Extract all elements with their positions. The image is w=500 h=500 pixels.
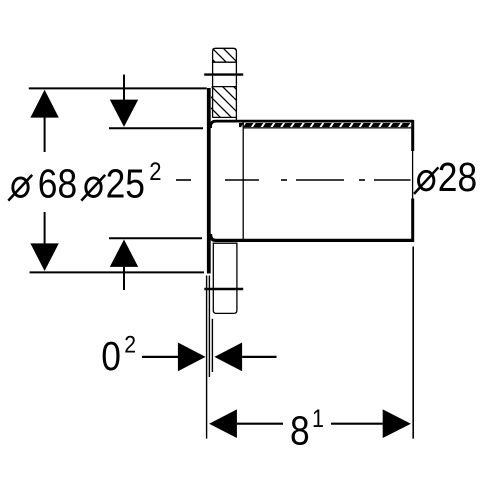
flange plate upper hatch — [136, 33, 300, 153]
dia25 top extension line — [109, 127, 203, 129]
tube end upper thick — [411, 120, 414, 151]
dim0 right extension line — [211, 319, 213, 372]
collar lower edge line — [208, 276, 210, 378]
dia68 bottom extension line — [30, 271, 205, 273]
dim0 right line — [242, 356, 276, 358]
dia25 top dimension stub — [123, 75, 125, 101]
dim0 left arrow — [214, 343, 242, 372]
dim0 left line — [142, 356, 178, 358]
flange plate upper mid line — [213, 86, 237, 88]
svg-text:8: 8 — [290, 408, 310, 454]
dia68 top arrow — [30, 90, 58, 118]
svg-text:2: 2 — [149, 158, 161, 187]
dim8 left extension line — [206, 276, 208, 439]
flange plate upper break line — [204, 73, 243, 75]
dia68 bottom arrow — [30, 243, 58, 271]
label dia68 diameter symbol — [8, 175, 32, 201]
tube outer top line — [211, 121, 413, 128]
flange plate lower part outline — [213, 243, 237, 313]
flange plate cap hatch — [197, 44, 260, 74]
svg-text:28: 28 — [438, 155, 477, 201]
svg-text:1: 1 — [312, 405, 324, 433]
tube outer bottom line — [211, 234, 414, 240]
dim0 right arrow — [178, 343, 206, 372]
dim8 right arrow — [383, 409, 411, 438]
tube end middle thin — [412, 151, 414, 199]
dia25 bottom arrow — [110, 240, 138, 267]
dim8 dimension line — [237, 423, 283, 425]
tube inner top thin line — [243, 127, 411, 129]
tube wall hatch band — [239, 121, 413, 129]
dia25 bottom extension line — [109, 237, 202, 239]
dia25 top arrow — [110, 100, 138, 127]
label dia28 diameter symbol — [414, 167, 438, 194]
tube end lower thick — [411, 199, 414, 242]
svg-text:68: 68 — [38, 161, 77, 207]
dia68 dimension line — [44, 117, 46, 152]
dim8 left arrow — [209, 409, 237, 438]
dim8 right extension line — [412, 247, 414, 439]
flange plate lower break line — [204, 288, 243, 290]
dia68 top extension line — [29, 87, 207, 89]
centerline — [176, 179, 411, 181]
tube socket vertical line — [242, 121, 244, 240]
collar thick left edge — [207, 88, 211, 274]
label dia25 diameter symbol — [81, 175, 105, 201]
flange plate cap inner line — [213, 61, 237, 63]
svg-text:0: 0 — [101, 334, 121, 380]
dia25 bottom dimension stub — [123, 267, 125, 290]
svg-text:2: 2 — [124, 330, 136, 358]
flange plate top cap outline — [213, 48, 237, 73]
flange plate lower hatch region line — [213, 116, 236, 118]
svg-text:25: 25 — [106, 161, 145, 207]
flange plate upper mid edges — [212, 76, 214, 118]
